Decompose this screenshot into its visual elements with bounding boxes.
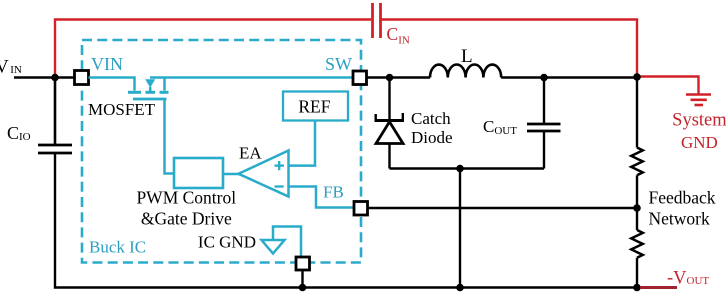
- pad SW: [353, 71, 367, 85]
- op-amp plus input mark: [275, 161, 285, 170]
- wire: red output node to system ground: [637, 77, 699, 94]
- capacitor CIO: [38, 78, 72, 154]
- wire: red -Vout stub: [640, 286, 677, 289]
- svg-text:Network: Network: [649, 209, 710, 229]
- wire: red VIN node up to CIN left: [55, 20, 371, 77]
- node: SW diode junction: [386, 74, 394, 82]
- node: rail at branch: [456, 284, 464, 292]
- wire: red CIN right to output node: [382, 20, 638, 77]
- box: REF: [283, 92, 348, 121]
- wire: FB pad to feedback divider: [368, 207, 638, 209]
- svg-text:System: System: [672, 111, 726, 131]
- IC boundary: Buck IC dashed box: [82, 40, 361, 263]
- svg-text:REF: REF: [298, 97, 330, 117]
- wire: IC GND pad to rail: [301, 270, 303, 287]
- box: PWM Control and Gate Drive: [174, 158, 223, 188]
- wire: EA minus input to FB pad: [289, 187, 354, 208]
- node: COUT junction: [540, 74, 548, 82]
- svg-text:&Gate Drive: &Gate Drive: [141, 209, 232, 229]
- svg-text:IC GND: IC GND: [198, 233, 256, 252]
- ground: IC GND triangle: [262, 240, 285, 254]
- resistor R1 upper feedback: [631, 77, 643, 208]
- resistor R2 lower feedback: [631, 208, 643, 287]
- wire: PWM box to EA output: [223, 173, 239, 176]
- wire: MOSFET drain to SW pad: [150, 76, 353, 79]
- node: output branch junction: [456, 165, 464, 173]
- wire: VIN pad to MOSFET source: [89, 78, 135, 91]
- svg-text:EA: EA: [239, 144, 262, 163]
- transistor: MOSFET: [128, 78, 169, 100]
- wire: diode to COUT bottom link: [390, 167, 545, 169]
- svg-text:FB: FB: [323, 183, 344, 202]
- pad FB: [354, 202, 368, 216]
- wire: branch down to rail: [459, 169, 461, 288]
- svg-text:PWM Control: PWM Control: [136, 188, 236, 208]
- op-amp EA: [239, 151, 289, 197]
- wire: MOSFET gate to PWM box: [165, 99, 175, 174]
- svg-text:Feedback: Feedback: [649, 188, 716, 208]
- svg-text:Diode: Diode: [411, 128, 453, 147]
- wire: IC GND hook: [273, 227, 301, 257]
- node: rail at IC GND: [299, 284, 307, 292]
- pad VIN: [75, 71, 89, 85]
- svg-text:VIN: VIN: [91, 54, 123, 74]
- op-amp minus input mark: [275, 185, 284, 187]
- svg-text:L: L: [461, 46, 473, 67]
- wire: VIN input lead: [14, 76, 74, 78]
- node: rail at feedback: [633, 284, 641, 292]
- svg-text:SW: SW: [325, 54, 352, 74]
- node: feedback divider tap: [633, 204, 641, 212]
- wire: EA plus input to REF: [289, 121, 316, 166]
- wire: CIO to bottom rail: [55, 153, 637, 288]
- diode: catch diode: [375, 78, 405, 169]
- node: input junction: [51, 74, 59, 82]
- ground: System GND symbol: [686, 95, 711, 106]
- svg-text:GND: GND: [681, 133, 718, 152]
- inductor L: [430, 65, 501, 78]
- svg-text:MOSFET: MOSFET: [88, 100, 156, 119]
- wire: inductor to output node: [501, 76, 637, 78]
- capacitor COUT: [527, 78, 561, 169]
- pad IC GND: [296, 257, 310, 270]
- node: output system gnd junction: [633, 73, 641, 81]
- wire: SW pad to inductor: [367, 76, 431, 78]
- capacitor C1 CIN plates: [373, 3, 381, 38]
- svg-text:Catch: Catch: [411, 109, 451, 128]
- svg-text:Buck IC: Buck IC: [89, 238, 146, 257]
